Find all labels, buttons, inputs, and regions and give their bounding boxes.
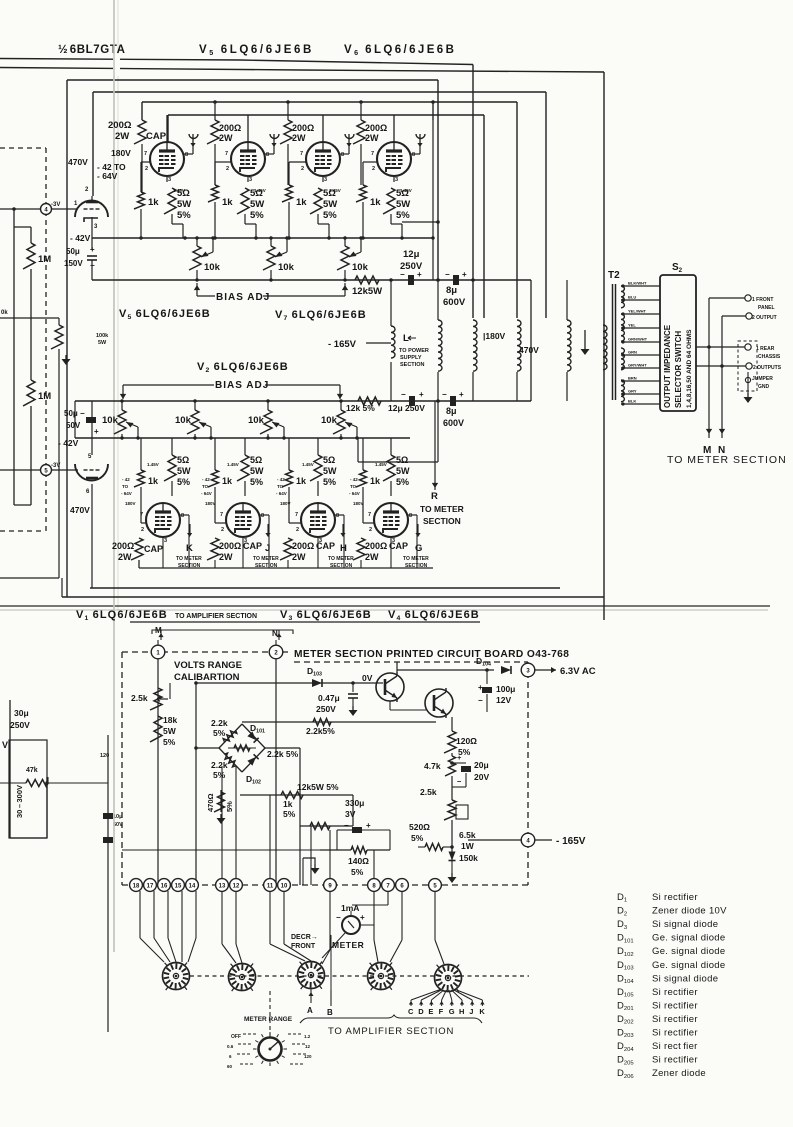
svg-text:-3V: -3V [51, 202, 60, 208]
svg-text:520Ω: 520Ω [409, 822, 430, 832]
svg-text:200Ω: 200Ω [219, 123, 241, 133]
svg-text:7: 7 [220, 512, 223, 518]
svg-text:−: − [442, 390, 447, 399]
svg-text:2W: 2W [219, 133, 233, 143]
svg-text:- 64V: - 64V [349, 491, 360, 496]
svg-text:E: E [428, 1007, 433, 1016]
svg-text:0.6: 0.6 [227, 1044, 234, 1049]
svg-text:5%: 5% [323, 477, 336, 487]
svg-text:7: 7 [371, 151, 374, 157]
svg-text:5%: 5% [250, 210, 264, 221]
svg-text:47k: 47k [26, 767, 38, 774]
svg-text:3: 3 [395, 177, 398, 183]
svg-text:M: M [155, 626, 162, 635]
svg-text:T2: T2 [608, 270, 620, 281]
svg-text:METER: METER [332, 940, 364, 950]
svg-text:8: 8 [185, 152, 188, 158]
svg-text:GRY/WHT: GRY/WHT [628, 363, 647, 368]
svg-text:250V: 250V [316, 704, 336, 714]
svg-text:Si rectifier: Si rectifier [652, 1028, 698, 1039]
svg-text:1.45V: 1.45V [227, 462, 239, 467]
svg-text:+: + [457, 753, 462, 762]
svg-text:200Ω: 200Ω [292, 541, 314, 551]
svg-text:YEL: YEL [628, 323, 636, 328]
svg-text:2W: 2W [292, 552, 306, 562]
svg-text:470V: 470V [68, 157, 88, 167]
svg-text:1 FRONT: 1 FRONT [752, 297, 773, 303]
svg-text:2.2k: 2.2k [211, 760, 228, 770]
svg-text:5W: 5W [177, 199, 191, 210]
svg-text:50μ: 50μ [66, 247, 80, 256]
svg-text:120: 120 [100, 753, 109, 759]
svg-text:12μ 250V: 12μ 250V [388, 403, 425, 413]
svg-text:- 42V: - 42V [58, 438, 79, 448]
svg-text:CAP: CAP [389, 541, 408, 551]
svg-text:−: − [478, 696, 483, 705]
svg-text:180V: 180V [111, 148, 131, 158]
svg-text:12μ: 12μ [403, 249, 420, 260]
svg-text:120: 120 [304, 1054, 312, 1059]
svg-text:180V: 180V [205, 501, 216, 506]
svg-text:2.2k: 2.2k [211, 718, 228, 728]
svg-text:10k: 10k [321, 415, 338, 426]
svg-text:GRN/WHT: GRN/WHT [628, 337, 648, 342]
svg-text:H: H [459, 1007, 464, 1016]
svg-text:5W: 5W [250, 466, 264, 476]
svg-text:|180V: |180V [483, 331, 506, 341]
svg-text:Si rectifier: Si rectifier [652, 1014, 698, 1025]
svg-text:12: 12 [305, 1044, 311, 1049]
svg-text:CAP: CAP [316, 541, 335, 551]
svg-text:1.45V: 1.45V [173, 188, 185, 193]
svg-text:10k: 10k [102, 415, 119, 426]
svg-text:140Ω: 140Ω [348, 856, 369, 866]
svg-text:5%: 5% [250, 477, 263, 487]
svg-text:- 42: - 42 [350, 477, 358, 482]
svg-text:CAP: CAP [146, 131, 167, 142]
svg-text:CHASSIS: CHASSIS [758, 354, 781, 360]
svg-text:+: + [419, 390, 424, 399]
svg-text:5%: 5% [283, 809, 296, 819]
svg-text:5W: 5W [98, 340, 107, 346]
svg-text:1.2: 1.2 [304, 1034, 311, 1039]
svg-text:1k: 1k [148, 197, 159, 208]
svg-text:+: + [366, 821, 371, 830]
svg-text:200Ω: 200Ω [108, 120, 132, 131]
svg-text:2.5k: 2.5k [420, 787, 437, 797]
svg-text:B: B [327, 1008, 333, 1017]
svg-text:12k5W: 12k5W [352, 286, 382, 297]
svg-text:TO METER: TO METER [328, 556, 354, 562]
svg-text:−: − [336, 913, 341, 922]
svg-text:1k: 1k [370, 197, 381, 208]
svg-text:1.45V: 1.45V [329, 188, 341, 193]
svg-text:5%: 5% [411, 833, 424, 843]
svg-text:180V: 180V [125, 501, 136, 506]
svg-text:8: 8 [261, 513, 264, 519]
svg-text:- 64V: - 64V [97, 171, 118, 181]
svg-text:- 42: - 42 [277, 477, 285, 482]
svg-text:CAP: CAP [243, 541, 262, 551]
svg-text:R: R [431, 491, 438, 502]
svg-text:1k: 1k [222, 197, 233, 208]
svg-text:VOLTS RANGE: VOLTS RANGE [174, 660, 242, 671]
svg-text:Ge. signal diode: Ge. signal diode [652, 960, 725, 971]
svg-text:TO: TO [122, 484, 129, 489]
svg-text:Si rectifier: Si rectifier [652, 1000, 698, 1011]
svg-text:TO POWER: TO POWER [399, 348, 429, 354]
svg-text:100k: 100k [96, 333, 109, 339]
svg-text:200Ω: 200Ω [292, 123, 314, 133]
svg-text:OFF: OFF [231, 1034, 241, 1040]
svg-text:5W: 5W [323, 466, 337, 476]
svg-text:DECR→: DECR→ [291, 934, 318, 941]
svg-text:30 – 300V: 30 – 300V [15, 785, 24, 818]
svg-text:Si signal diode: Si signal diode [652, 919, 718, 930]
svg-text:CAP: CAP [144, 544, 163, 554]
svg-text:- 165V: - 165V [556, 836, 586, 847]
svg-text:GRY: GRY [628, 389, 637, 394]
svg-text:5Ω: 5Ω [323, 455, 335, 465]
svg-text:SELECTOR SWITCH: SELECTOR SWITCH [674, 331, 683, 408]
svg-text:30μ: 30μ [14, 708, 29, 718]
svg-text:10: 10 [281, 883, 288, 889]
svg-text:+: + [459, 390, 464, 399]
svg-text:20μ: 20μ [474, 760, 489, 770]
svg-text:5%: 5% [213, 728, 226, 738]
svg-text:+: + [462, 270, 467, 279]
svg-text:1,4,8,16,50 AND 64 OHMS: 1,4,8,16,50 AND 64 OHMS [686, 329, 693, 408]
svg-text:6.3V AC: 6.3V AC [560, 666, 596, 677]
svg-text:5%: 5% [396, 210, 410, 221]
svg-text:2: 2 [226, 166, 229, 172]
svg-text:1.45V: 1.45V [147, 462, 159, 467]
svg-text:8: 8 [412, 152, 415, 158]
svg-text:12k5W 5%: 12k5W 5% [297, 782, 339, 792]
svg-text:12k 5%: 12k 5% [346, 403, 375, 413]
svg-text:2.2k5%: 2.2k5% [306, 726, 335, 736]
svg-text:A: A [307, 1006, 313, 1015]
svg-text:5Ω: 5Ω [177, 455, 189, 465]
svg-text:2W: 2W [292, 133, 306, 143]
svg-text:8: 8 [181, 513, 184, 519]
svg-text:2 OUTPUT: 2 OUTPUT [752, 315, 777, 321]
svg-text:0.47μ: 0.47μ [318, 693, 340, 703]
svg-text:7: 7 [225, 151, 228, 157]
svg-text:BIAS ADJ: BIAS ADJ [215, 380, 269, 391]
svg-text:5W: 5W [250, 199, 264, 210]
svg-text:1k: 1k [296, 197, 307, 208]
svg-text:- 42: - 42 [122, 477, 130, 482]
svg-text:F: F [439, 1007, 444, 1016]
svg-text:200Ω: 200Ω [365, 541, 387, 551]
svg-text:1W: 1W [461, 841, 475, 851]
svg-text:2: 2 [372, 166, 375, 172]
svg-text:−: − [344, 821, 349, 830]
svg-text:SECTION: SECTION [400, 362, 424, 368]
svg-text:60: 60 [227, 1064, 233, 1069]
svg-text:1k: 1k [222, 476, 233, 486]
svg-text:−: − [445, 270, 450, 279]
svg-text:5%: 5% [177, 210, 191, 221]
svg-text:150k: 150k [459, 853, 478, 863]
svg-text:470V: 470V [519, 345, 539, 355]
svg-text:METER SECTION PRINTED CIRCU: METER SECTION PRINTED CIRCUIT BOARD O43-… [294, 649, 569, 660]
svg-text:8: 8 [409, 513, 412, 519]
svg-text:200Ω: 200Ω [112, 541, 134, 551]
svg-text:Zener diode 10V: Zener diode 10V [652, 906, 727, 917]
svg-text:Ge. signal diode: Ge. signal diode [652, 946, 725, 957]
svg-text:TO METER SECTION: TO METER SECTION [667, 454, 787, 466]
svg-text:5%: 5% [213, 770, 226, 780]
svg-text:7: 7 [295, 512, 298, 518]
svg-text:TO METER: TO METER [253, 556, 279, 562]
svg-text:250V: 250V [400, 261, 423, 272]
svg-text:10k: 10k [352, 262, 369, 273]
svg-text:200Ω: 200Ω [219, 541, 241, 551]
svg-text:K: K [479, 1007, 485, 1016]
svg-text:BIAS ADJ: BIAS ADJ [216, 292, 270, 303]
svg-text:V3 6LQ6/6JE6B: V3 6LQ6/6JE6B [280, 609, 372, 622]
svg-text:5Ω: 5Ω [250, 455, 262, 465]
svg-text:3: 3 [168, 177, 171, 183]
svg-text:20V: 20V [474, 772, 489, 782]
svg-text:180V: 180V [280, 501, 291, 506]
svg-text:7: 7 [368, 512, 371, 518]
svg-text:50μ −: 50μ − [64, 409, 85, 418]
svg-text:8: 8 [266, 152, 269, 158]
svg-text:BLK/WHT: BLK/WHT [628, 281, 647, 286]
svg-text:2.2k 5%: 2.2k 5% [267, 749, 299, 759]
svg-text:G: G [415, 543, 422, 554]
svg-text:1k: 1k [370, 476, 381, 486]
svg-text:5W: 5W [323, 199, 337, 210]
svg-text:V5 6LQ6/6JE6B: V5 6LQ6/6JE6B [119, 308, 211, 321]
svg-text:2: 2 [296, 527, 299, 533]
svg-text:5W: 5W [177, 466, 191, 476]
svg-text:TO: TO [277, 484, 284, 489]
svg-text:3: 3 [164, 538, 167, 544]
svg-text:1 REAR: 1 REAR [756, 346, 775, 352]
svg-text:100μ: 100μ [496, 684, 515, 694]
svg-text:14: 14 [189, 883, 196, 889]
svg-text:+: + [478, 683, 483, 692]
svg-text:10k: 10k [204, 262, 221, 273]
svg-text:- 165V: - 165V [328, 339, 357, 350]
svg-text:2W: 2W [219, 552, 233, 562]
svg-text:- 64V: - 64V [121, 491, 132, 496]
svg-text:5%: 5% [323, 210, 337, 221]
svg-text:1.45V: 1.45V [254, 188, 266, 193]
svg-text:D: D [418, 1007, 424, 1016]
svg-text:TO METER: TO METER [403, 556, 429, 562]
svg-text:5%: 5% [163, 737, 176, 747]
svg-text:- 64V: - 64V [276, 491, 287, 496]
svg-text:V5 6LQ6/6JE6B: V5 6LQ6/6JE6B [199, 44, 314, 57]
svg-text:TO METER: TO METER [420, 504, 464, 514]
svg-text:330μ: 330μ [345, 798, 364, 808]
svg-text:0V: 0V [362, 673, 373, 683]
svg-text:−: − [401, 390, 406, 399]
svg-text:Zener diode: Zener diode [652, 1068, 706, 1079]
svg-text:1.45V: 1.45V [375, 462, 387, 467]
svg-text:4.7k: 4.7k [424, 761, 441, 771]
svg-text:8: 8 [341, 152, 344, 158]
svg-text:8μ: 8μ [446, 285, 457, 296]
svg-text:FRONT: FRONT [291, 943, 316, 950]
svg-text:+: + [360, 913, 365, 922]
svg-text:2: 2 [141, 527, 144, 533]
svg-text:YEL/WHT: YEL/WHT [628, 309, 647, 314]
svg-text:6.5k: 6.5k [459, 830, 476, 840]
svg-text:1M: 1M [38, 391, 51, 402]
svg-text:SECTION: SECTION [423, 516, 461, 526]
svg-text:CALIBARTION: CALIBARTION [174, 672, 240, 683]
svg-text:7: 7 [300, 151, 303, 157]
svg-text:3: 3 [324, 177, 327, 183]
svg-text:150V: 150V [64, 259, 83, 268]
svg-text:C: C [408, 1007, 414, 1016]
svg-text:8: 8 [336, 513, 339, 519]
svg-text:10k: 10k [175, 415, 192, 426]
svg-text:SUPPLY: SUPPLY [400, 355, 422, 361]
svg-text:5W: 5W [396, 199, 410, 210]
svg-text:2: 2 [221, 527, 224, 533]
svg-text:TO: TO [350, 484, 357, 489]
svg-text:V4 6LQ6/6JE6B: V4 6LQ6/6JE6B [388, 609, 480, 622]
svg-text:J: J [469, 1007, 473, 1016]
svg-text:3: 3 [249, 177, 252, 183]
svg-text:10k: 10k [278, 262, 295, 273]
svg-text:1.45V: 1.45V [302, 462, 314, 467]
svg-text:BLK: BLK [628, 399, 636, 404]
svg-text:V6 6LQ6/6JE6B: V6 6LQ6/6JE6B [344, 44, 456, 57]
svg-text:N: N [272, 629, 278, 638]
svg-text:Si signal diode: Si signal diode [652, 973, 718, 984]
svg-text:V2 6LQ6/6JE6B: V2 6LQ6/6JE6B [197, 361, 289, 374]
svg-text:GND: GND [758, 384, 770, 390]
svg-text:2.5k: 2.5k [131, 693, 148, 703]
svg-text:BRN: BRN [628, 376, 637, 381]
svg-text:5%: 5% [177, 477, 190, 487]
svg-text:12: 12 [233, 883, 240, 889]
svg-text:GRN: GRN [628, 350, 637, 355]
svg-text:2: 2 [369, 527, 372, 533]
svg-text:17: 17 [147, 883, 154, 889]
svg-text:600V: 600V [443, 297, 466, 308]
svg-text:120Ω: 120Ω [456, 736, 477, 746]
svg-text:5%: 5% [396, 477, 409, 487]
svg-text:BLU: BLU [628, 295, 636, 300]
svg-text:- 64V: - 64V [201, 491, 212, 496]
svg-text:Si rectifier: Si rectifier [652, 1055, 698, 1066]
svg-text:2: 2 [301, 166, 304, 172]
svg-text:180V: 180V [353, 501, 364, 506]
svg-text:50V: 50V [66, 421, 81, 430]
svg-text:13: 13 [219, 883, 226, 889]
svg-text:10k: 10k [248, 415, 265, 426]
svg-text:5W: 5W [163, 726, 177, 736]
svg-text:1k: 1k [148, 476, 159, 486]
svg-text:600V: 600V [443, 418, 464, 428]
svg-text:JUMPER: JUMPER [752, 376, 773, 382]
svg-text:1.45V: 1.45V [400, 188, 412, 193]
svg-text:15: 15 [175, 883, 182, 889]
svg-text:2W: 2W [115, 131, 129, 142]
svg-text:1k: 1k [283, 799, 293, 809]
svg-text:11: 11 [267, 883, 274, 889]
svg-text:G: G [449, 1007, 455, 1016]
svg-text:V: V [2, 740, 8, 750]
svg-text:Ge. signal diode: Ge. signal diode [652, 933, 725, 944]
svg-text:OUTPUT IMPEDANCE: OUTPUT IMPEDANCE [663, 324, 672, 408]
svg-text:2: 2 [145, 166, 148, 172]
svg-text:−: − [457, 777, 462, 786]
svg-text:250V: 250V [10, 720, 30, 730]
svg-text:470V: 470V [70, 505, 90, 515]
svg-text:12V: 12V [496, 695, 511, 705]
svg-text:Si rectifier: Si rectifier [652, 987, 698, 998]
svg-text:2W: 2W [365, 552, 379, 562]
svg-text:18k: 18k [163, 715, 177, 725]
svg-text:METER RANGE: METER RANGE [244, 1016, 293, 1023]
svg-text:Si rectifier: Si rectifier [652, 892, 698, 903]
svg-text:TO AMPLIFIER SECTION: TO AMPLIFIER SECTION [175, 613, 257, 620]
svg-text:8μ: 8μ [446, 406, 457, 416]
svg-text:18: 18 [133, 883, 140, 889]
svg-text:5Ω: 5Ω [396, 455, 408, 465]
svg-text:3V: 3V [345, 809, 356, 819]
svg-text:5%: 5% [225, 801, 234, 812]
svg-text:- 42: - 42 [202, 477, 210, 482]
svg-text:TO AMPLIFIER SECTION: TO AMPLIFIER SECTION [328, 1026, 454, 1037]
svg-text:5W: 5W [396, 466, 410, 476]
svg-text:- 42V: - 42V [70, 233, 91, 243]
svg-text:PANEL: PANEL [758, 305, 775, 311]
svg-text:TO: TO [202, 484, 209, 489]
svg-text:0k: 0k [1, 310, 8, 316]
svg-text:2W: 2W [365, 133, 379, 143]
svg-text:Si rect fier: Si rect fier [652, 1041, 698, 1052]
svg-text:2W: 2W [118, 552, 132, 562]
svg-text:16: 16 [161, 883, 168, 889]
svg-text:V7 6LQ6/6JE6B: V7 6LQ6/6JE6B [275, 309, 367, 322]
svg-text:7: 7 [144, 151, 147, 157]
svg-text:1k: 1k [296, 476, 307, 486]
svg-text:470Ω: 470Ω [206, 793, 215, 812]
svg-text:1M: 1M [38, 254, 51, 265]
svg-text:V1 6LQ6/6JE6B: V1 6LQ6/6JE6B [76, 609, 168, 622]
svg-text:5%: 5% [351, 867, 364, 877]
svg-text:+: + [94, 427, 99, 436]
svg-text:200Ω: 200Ω [365, 123, 387, 133]
